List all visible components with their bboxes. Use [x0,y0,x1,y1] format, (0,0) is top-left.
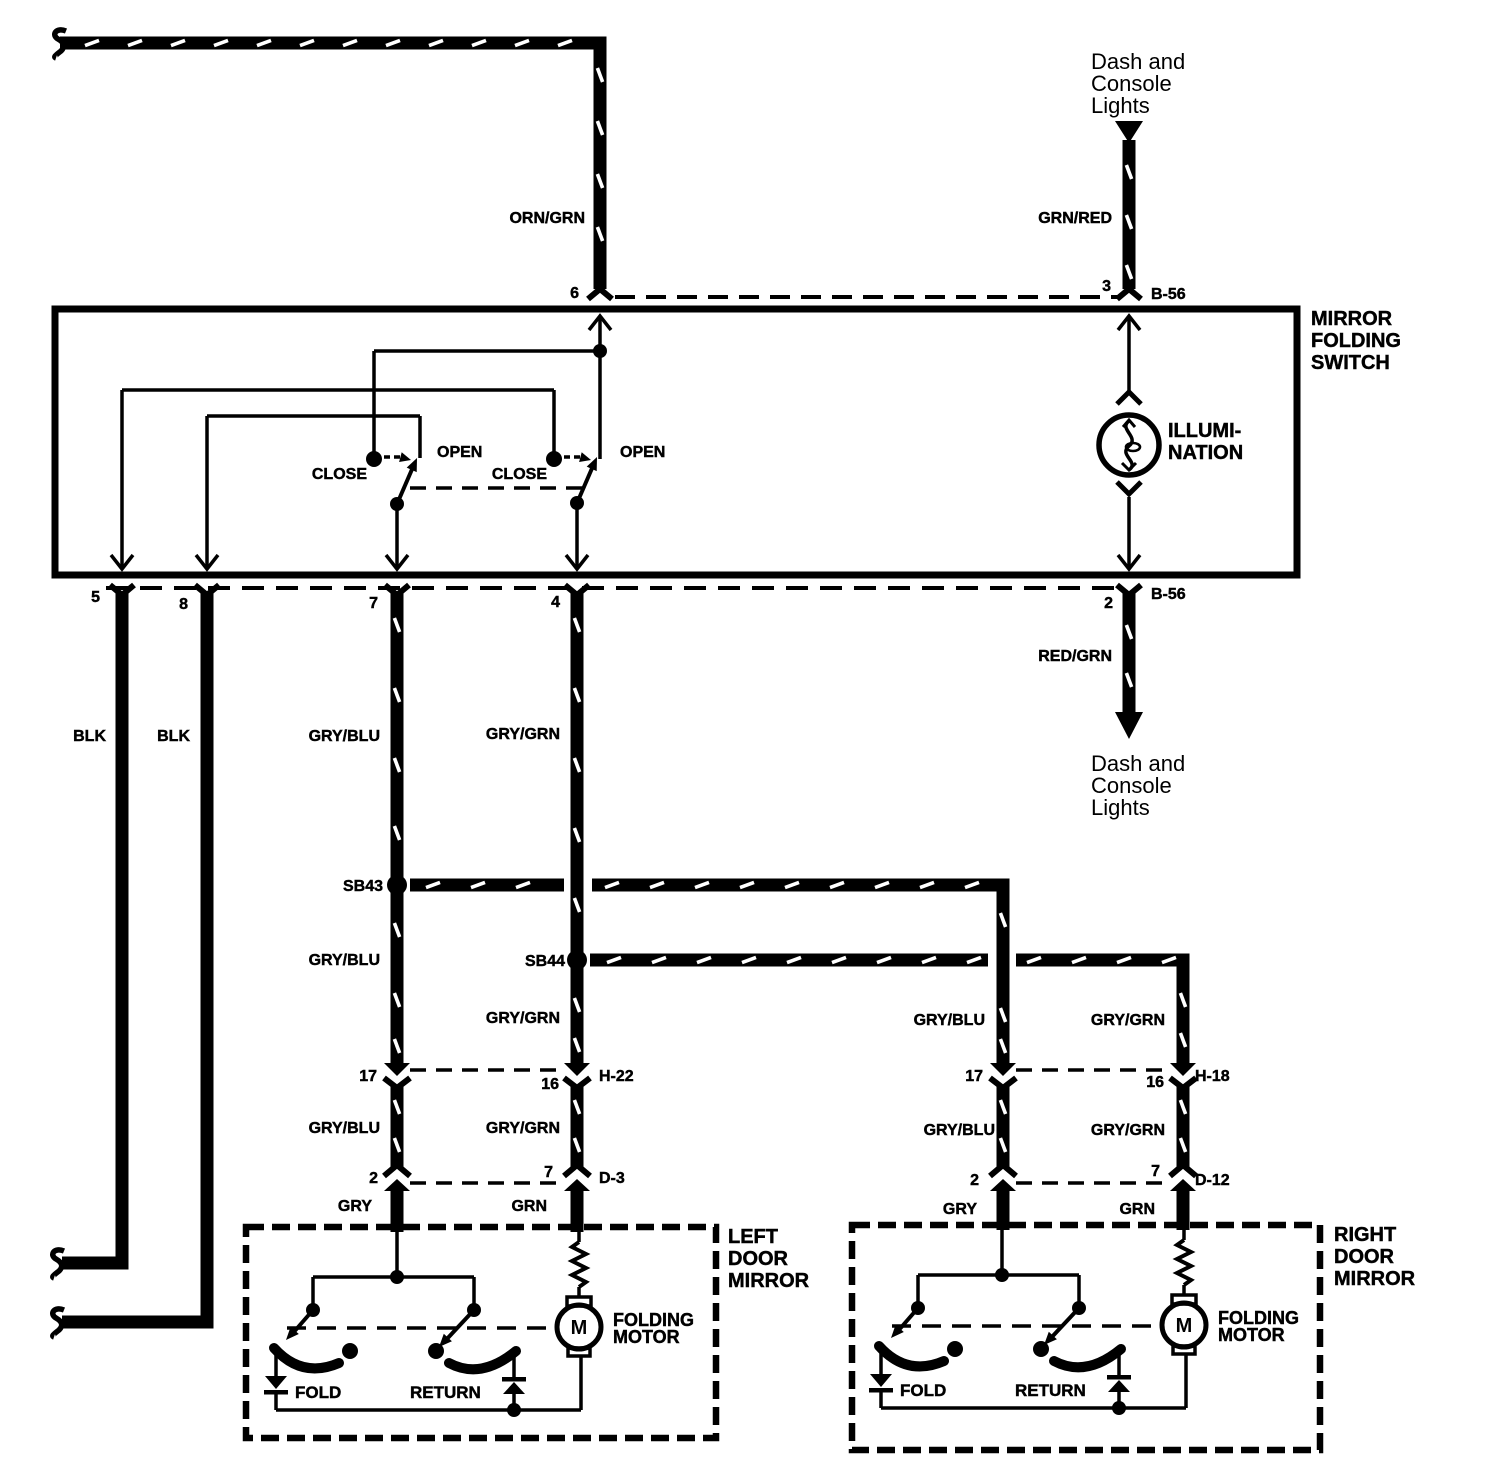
svg-text:DOOR: DOOR [728,1248,789,1270]
switch FOLD blade (right door mirror) [891,1308,918,1338]
label BLK (pin 8) [157,728,190,745]
node switch common junction [593,344,607,358]
wire mirror switch bus (right door mirror) [918,1275,1079,1308]
illumination lamp upper terminal chevron [1117,392,1141,404]
wire GRY/BLU H-18 to D-12 [997,1085,1010,1167]
svg-text:FOLD: FOLD [900,1381,946,1400]
svg-text:MIRROR: MIRROR [728,1270,810,1292]
switch FOLD pivot (right door mirror) [911,1301,925,1315]
label pin 7 [369,595,378,612]
svg-text:MOTOR: MOTOR [613,1327,680,1347]
svg-text:GRN/RED: GRN/RED [1038,210,1112,227]
dashed connector line D-3 [410,1181,566,1185]
illumination lamp bulb [1099,415,1159,475]
label RIGHT DOOR MIRROR [1334,1224,1416,1290]
svg-text:5: 5 [91,589,100,606]
label connector B-56 (top) [1151,286,1186,303]
switch RETURN contact arc (right door mirror) [1054,1349,1121,1367]
connector D-3 pin 7 [564,1165,590,1191]
wire GRN/RED vertical to pin 3 [1123,140,1136,289]
label 17 (H-18) [965,1068,983,1085]
dashed connector line H-22 [410,1068,566,1072]
label pin 8 [179,596,188,613]
wire GRY into right door mirror [997,1186,1010,1230]
label 16 (H-18) [1146,1074,1164,1091]
label CLOSE 1 [312,466,367,483]
svg-text:ILLUMI-: ILLUMI- [1168,420,1241,442]
label ORN/GRN [509,210,585,227]
svg-text:GRN: GRN [1119,1201,1155,1218]
svg-text:6: 6 [570,285,579,302]
wire pin5 to close contact 2 [122,390,554,455]
svg-text:GRY/GRN: GRY/GRN [1091,1012,1165,1029]
svg-text:GRY/GRN: GRY/GRN [486,1010,560,1027]
label FOLDING MOTOR (left door mirror) [613,1310,694,1347]
label 16 (H-22) [541,1076,559,1093]
svg-text:16: 16 [541,1076,559,1093]
label pin 3 [1102,278,1111,295]
svg-text:BLK: BLK [157,728,190,745]
svg-text:GRY/BLU: GRY/BLU [309,728,380,745]
label GRY (right) [943,1201,977,1218]
svg-text:SWITCH: SWITCH [1311,352,1390,374]
svg-text:MOTOR: MOTOR [1218,1325,1285,1345]
wire GRN into left door mirror [571,1186,584,1232]
wire SB44 branch vertical to H-18 pin 16 [1177,954,1190,1064]
wire resistor to motor (left door mirror) [577,1287,581,1297]
label MIRROR FOLDING SWITCH [1311,308,1401,374]
svg-text:7: 7 [544,1164,553,1181]
label SB44 [525,953,565,970]
wire illumination lamp to pin 2 [1118,497,1140,569]
node mirror feed junction (right door mirror) [995,1268,1009,1282]
switch blade 2 [577,457,597,503]
switch RETURN open contact (right door mirror) [1033,1341,1049,1357]
wire motor to bottom rail (left door mirror) [579,1356,583,1410]
label FOLD (right door mirror) [900,1381,946,1400]
wire SB43 branch vertical to H-18 pin 17 [997,879,1010,1064]
label 7 (D-3) [544,1164,553,1181]
svg-text:GRY/GRN: GRY/GRN [1091,1122,1165,1139]
svg-text:GRY: GRY [338,1198,372,1215]
svg-text:2: 2 [369,1170,378,1187]
svg-text:GRY/GRN: GRY/GRN [486,726,560,743]
label D-3 [599,1170,625,1187]
wire blade 2 to pin 4 [566,503,588,569]
resistor (motor feed) (right door mirror) [1177,1240,1191,1285]
switch FOLD blade (left door mirror) [286,1310,313,1340]
mechanical link to folding motor (dashed) (left door mirror) [287,1326,553,1330]
switch blade 2 pivot [570,496,584,510]
label pin 6 [570,285,579,302]
svg-text:GRY/BLU: GRY/BLU [309,952,380,969]
wire GRN to resistor (left door mirror) [577,1232,581,1242]
svg-text:D-12: D-12 [1195,1172,1230,1189]
wire blade 1 to pin 7 [386,504,408,569]
connector D-3 pin 2 [384,1165,410,1191]
wire from pin 6 down to switch common [589,316,611,459]
splice SB43 [387,875,407,895]
svg-text:RETURN: RETURN [410,1383,481,1402]
wire RED/GRN pin 2 down [1123,592,1136,713]
mechanical link to folding motor (dashed) (right door mirror) [892,1324,1158,1328]
dashed connector line B-56 [106,586,1122,590]
label FOLD (left door mirror) [295,1383,341,1402]
mirror folding switch box [55,309,1297,575]
wire mirror common feed (left door mirror) [395,1232,399,1277]
label GRN (left) [511,1198,547,1215]
label GRY (left) [338,1198,372,1215]
connector D-12 pin 2 [990,1165,1016,1191]
svg-text:OPEN: OPEN [620,444,665,461]
wire GRY/BLU SB43 to connector H-22 pin 17 [391,892,404,1063]
connector H-22 pin 17 [384,1063,410,1088]
splice SB44 [567,950,587,970]
pin 2 flare [1117,585,1141,595]
svg-text:MIRROR: MIRROR [1334,1268,1416,1290]
svg-text:H-18: H-18 [1195,1068,1230,1085]
svg-text:MIRROR: MIRROR [1311,308,1393,330]
svg-text:SB44: SB44 [525,953,565,970]
label 17 (H-22) [359,1068,377,1085]
wire ORN/GRN horizontal segment [60,37,607,50]
label LEFT DOOR MIRROR [728,1226,810,1292]
wire mirror switch bus (left door mirror) [313,1277,474,1310]
svg-text:2: 2 [970,1172,979,1189]
splice symbol S (pin 8 ground end) [53,1309,64,1337]
node mirror feed junction (left door mirror) [390,1270,404,1284]
svg-text:GRN: GRN [511,1198,547,1215]
svg-text:2: 2 [1104,595,1113,612]
wire GRY/GRN H-18 to D-12 [1177,1085,1190,1167]
label RED/GRN [1038,648,1112,665]
wire SB44 branch horizontal to right mirror [590,954,1190,967]
splice symbol S (top-left wire end) [55,30,66,58]
wire mirror bottom rail (left door mirror) [276,1408,581,1412]
label 2 (D-12) [970,1172,979,1189]
switch FOLD open contact (right door mirror) [947,1341,963,1357]
svg-text:7: 7 [369,595,378,612]
contact CLOSE 2 [546,451,562,467]
dashed connector line D-12 [1016,1181,1172,1185]
node bottom rail junction (right door mirror) [1112,1401,1126,1415]
label Dash and Console Lights (top) [1091,49,1185,118]
connector H-18 pin 16 [1170,1063,1196,1088]
wire ORN/GRN vertical segment down to pin 6 [594,37,607,290]
connector H-22 pin 16 [564,1063,590,1088]
splice symbol S (pin 5 ground end) [53,1250,64,1278]
connector H-18 pin 17 [990,1063,1016,1088]
svg-text:M: M [1176,1315,1193,1337]
wire pin3 to illumination lamp [1118,316,1140,391]
label OPEN 1 [437,444,482,461]
label ILLUMI-NATION [1168,420,1243,464]
label pin 4 [551,594,560,611]
label GRY/BLU (right upper) [914,1012,985,1029]
diode RETURN (left door mirror) [502,1355,526,1410]
diode FOLD (left door mirror) [264,1353,288,1410]
label GRY/GRN (right upper) [1091,1012,1165,1029]
label GRY/GRN (below SB44) [486,1010,560,1027]
switch RETURN blade (right door mirror) [1044,1308,1079,1345]
svg-text:LEFT: LEFT [728,1226,778,1248]
svg-text:SB43: SB43 [343,878,383,895]
svg-text:RETURN: RETURN [1015,1381,1086,1400]
svg-text:BLK: BLK [73,728,106,745]
wire branch down to pin 5 [111,390,133,569]
illumination lamp lower terminal chevron [1117,482,1141,494]
label GRY/BLU (left mid) [309,1120,380,1137]
dashed connector line H-18 [1016,1068,1172,1072]
svg-text:3: 3 [1102,278,1111,295]
svg-text:ORN/GRN: ORN/GRN [509,210,585,227]
svg-text:Lights: Lights [1091,795,1150,820]
contact CLOSE 1 [366,451,382,467]
svg-text:8: 8 [179,596,188,613]
mechanical link between blades (dashed) [410,486,583,490]
wire common to close contact 1 [374,351,600,455]
label D-12 [1195,1172,1230,1189]
svg-text:RED/GRN: RED/GRN [1038,648,1112,665]
svg-text:OPEN: OPEN [437,444,482,461]
svg-text:B-56: B-56 [1151,286,1186,303]
switch FOLD contact arc (left door mirror) [274,1348,339,1368]
resistor (motor feed) (left door mirror) [572,1242,586,1287]
svg-text:NATION: NATION [1168,442,1243,464]
wire BLK from pin 5 [62,592,129,1270]
label connector B-56 (bottom) [1151,586,1186,603]
right door mirror box [852,1225,1320,1450]
label FOLDING MOTOR (right door mirror) [1218,1308,1299,1345]
svg-text:GRY/BLU: GRY/BLU [924,1122,995,1139]
label SB43 [343,878,383,895]
svg-text:Lights: Lights [1091,93,1150,118]
svg-text:17: 17 [965,1068,983,1085]
label 7 (D-12) [1151,1163,1160,1180]
label OPEN 2 [620,444,665,461]
pin 5 flare [110,585,134,595]
label GRY/BLU (below SB43) [309,952,380,969]
pin 6 flare [588,289,612,299]
wire GRY/BLU H-22 to D-3 [391,1085,404,1167]
arrow from dash and console lights [1115,121,1143,143]
wire resistor to motor (right door mirror) [1182,1285,1186,1295]
label GRN/RED [1038,210,1112,227]
svg-text:16: 16 [1146,1074,1164,1091]
label H-22 [599,1068,634,1085]
dashed bus line pin6 to pin3 [615,295,1118,299]
wire GRY/BLU pin 7 to SB43 [391,592,404,878]
wire mirror bottom rail (right door mirror) [881,1406,1186,1410]
svg-text:7: 7 [1151,1163,1160,1180]
wire BLK from pin 8 [62,592,214,1329]
switch blade 1 thrown-position dashed arrow [384,452,411,462]
folding motor M (right door mirror) [1162,1295,1206,1354]
svg-text:D-3: D-3 [599,1170,625,1187]
svg-text:17: 17 [359,1068,377,1085]
wire mirror common feed (right door mirror) [1000,1230,1004,1275]
label Dash and Console Lights (bottom) [1091,751,1185,820]
label RETURN (left door mirror) [410,1383,481,1402]
label GRN (right) [1119,1201,1155,1218]
wire GRN into right door mirror [1177,1186,1190,1230]
switch FOLD open contact (left door mirror) [342,1343,358,1359]
label H-18 [1195,1068,1230,1085]
svg-text:DOOR: DOOR [1334,1246,1395,1268]
switch RETURN pivot (left door mirror) [467,1303,481,1317]
label GRY/GRN (right mid) [1091,1122,1165,1139]
svg-text:CLOSE: CLOSE [492,466,547,483]
label CLOSE 2 [492,466,547,483]
svg-text:M: M [571,1317,588,1339]
switch blade 1 pivot [390,497,404,511]
node bottom rail junction (left door mirror) [507,1403,521,1417]
wire GRY into left door mirror [391,1186,404,1232]
svg-text:GRY/GRN: GRY/GRN [486,1120,560,1137]
svg-text:H-22: H-22 [599,1068,634,1085]
svg-text:B-56: B-56 [1151,586,1186,603]
label GRY/GRN (left mid) [486,1120,560,1137]
svg-text:4: 4 [551,594,560,611]
svg-text:FOLDING: FOLDING [1311,330,1401,352]
connector D-12 pin 7 [1170,1165,1196,1191]
switch blade 1 [397,458,417,504]
switch RETURN blade (left door mirror) [439,1310,474,1347]
svg-text:RIGHT: RIGHT [1334,1224,1396,1246]
wire GRY/GRN SB44 to connector H-22 pin 16 [571,967,584,1063]
diode RETURN (right door mirror) [1107,1353,1131,1408]
label BLK (pin 5) [73,728,106,745]
switch RETURN pivot (right door mirror) [1072,1301,1086,1315]
switch RETURN open contact (left door mirror) [428,1343,444,1359]
label pin 2 [1104,595,1113,612]
wire GRY/GRN H-22 to D-3 [571,1085,584,1167]
switch blade 2 thrown-position dashed arrow [564,452,591,462]
folding motor M (left door mirror) [557,1297,601,1356]
pin 4 flare [565,585,589,595]
arrow to dash and console lights [1115,712,1143,739]
wire motor to bottom rail (right door mirror) [1184,1354,1188,1408]
switch FOLD pivot (left door mirror) [306,1303,320,1317]
switch FOLD contact arc (right door mirror) [879,1346,944,1366]
pin 3 flare [1117,289,1141,299]
wire branch down to pin 8 [196,416,218,569]
label 2 (D-3) [369,1170,378,1187]
label RETURN (right door mirror) [1015,1381,1086,1400]
diode FOLD (right door mirror) [869,1351,893,1408]
pin 8 flare [195,585,219,595]
svg-text:FOLD: FOLD [295,1383,341,1402]
svg-text:CLOSE: CLOSE [312,466,367,483]
pin 7 flare [385,585,409,595]
wire SB43 branch horizontal to right mirror [410,879,1010,892]
label GRY/BLU (upper) [309,728,380,745]
wire GRY/GRN pin 4 to SB44 [571,592,584,953]
wire GRN to resistor (right door mirror) [1182,1230,1186,1240]
label GRY/BLU (right mid) [924,1122,995,1139]
left door mirror box [246,1227,716,1438]
svg-text:GRY: GRY [943,1201,977,1218]
switch RETURN contact arc (left door mirror) [449,1351,516,1369]
svg-text:GRY/BLU: GRY/BLU [309,1120,380,1137]
label GRY/GRN (upper) [486,726,560,743]
svg-text:GRY/BLU: GRY/BLU [914,1012,985,1029]
wire pin8 to open contact 1 [207,416,420,458]
label pin 5 [91,589,100,606]
